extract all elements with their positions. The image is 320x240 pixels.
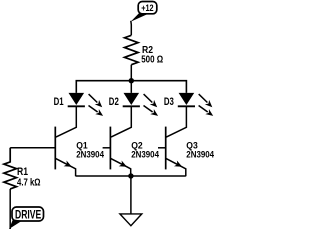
- ground: [120, 176, 142, 226]
- wire D3 to Q3 collector: [166, 106, 186, 137]
- svg-text:D3: D3: [164, 96, 174, 108]
- wire D2 to Q2 collector: [111, 106, 131, 137]
- svg-text:D1: D1: [54, 96, 64, 108]
- transistor Q2: [103, 127, 160, 177]
- node DRIVE: [9, 207, 44, 229]
- node +12: [131, 2, 157, 22]
- svg-text:DRIVE: DRIVE: [15, 208, 41, 222]
- wire emitter rail: [76, 175, 186, 177]
- LED D1: [54, 93, 104, 116]
- junction bus node: [129, 78, 134, 83]
- wire top bus rail: [76, 81, 186, 93]
- wire D1 to Q1 collector: [56, 106, 76, 137]
- wire R1 to DRIVE: [9, 189, 11, 229]
- svg-text:2N3904: 2N3904: [186, 150, 214, 161]
- svg-text:500 Ω: 500 Ω: [141, 55, 163, 66]
- svg-text:+12: +12: [141, 3, 153, 14]
- resistor R2: [125, 35, 164, 65]
- svg-text:2N3904: 2N3904: [76, 150, 104, 161]
- svg-text:D2: D2: [109, 96, 119, 108]
- LED D2: [109, 93, 158, 116]
- resistor R1: [4, 148, 41, 189]
- wire +12 to R2: [130, 21, 133, 36]
- LED D3: [164, 93, 213, 116]
- wire bus to D2: [130, 81, 132, 93]
- svg-text:4.7 kΩ: 4.7 kΩ: [17, 177, 41, 189]
- svg-text:2N3904: 2N3904: [131, 150, 159, 161]
- junction rail node: [128, 173, 133, 178]
- transistor Q1: [10, 127, 104, 177]
- wire R2 to bus: [130, 65, 132, 81]
- transistor Q3: [158, 127, 215, 177]
